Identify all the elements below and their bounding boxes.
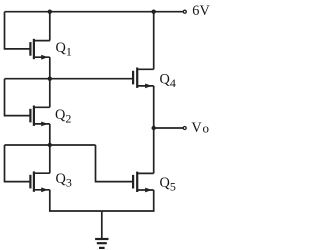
wire Q3 gate loop bbox=[5, 145, 31, 182]
transistor Q1 bbox=[30, 39, 49, 60]
transistor Q4 bbox=[133, 68, 154, 89]
svg-text:Q4: Q4 bbox=[160, 72, 176, 91]
wire Q1 drain from 6V rail bbox=[49, 12, 51, 41]
node junction dot rail2 bbox=[48, 77, 52, 81]
wire Q4 source to Q5 drain (through Vo node) bbox=[153, 86, 155, 173]
transistor Q2 bbox=[30, 106, 49, 127]
wire Q2 drain from rail2 bbox=[49, 79, 51, 108]
terminal Vo open circle bbox=[183, 127, 186, 130]
svg-text:6V: 6V bbox=[192, 3, 210, 19]
transistor Q5 bbox=[133, 172, 154, 193]
svg-text:Q3: Q3 bbox=[56, 171, 72, 190]
svg-text:Vo: Vo bbox=[191, 120, 209, 136]
wire Q3 drain from rail3 bbox=[49, 145, 51, 173]
wire Q2 source to rail3 bbox=[49, 124, 51, 145]
wire Q1 gate loop (left vertical + horizontal to gate) bbox=[5, 12, 31, 49]
svg-text:Q5: Q5 bbox=[160, 175, 176, 194]
wire Q2 gate loop bbox=[5, 79, 31, 116]
transistor Q3 bbox=[30, 171, 49, 192]
wire rail3 (Q2 source / Q3 drain node) bbox=[5, 144, 96, 146]
ground bbox=[95, 239, 108, 248]
terminal 6V open circle bbox=[183, 10, 186, 13]
wire ground stem bbox=[101, 211, 103, 239]
wire rail3 to Q5 gate (corner drop) bbox=[96, 145, 134, 182]
wire rail2 (Q1 source / Q2 drain / Q4 gate node) bbox=[5, 78, 134, 80]
wire Vo tap bbox=[154, 127, 183, 129]
node junction dot rail1 / Q4 drain bbox=[152, 10, 156, 14]
wire Q4 drain from 6V rail bbox=[153, 12, 155, 70]
wire Q5 source to bottom rail bbox=[102, 190, 154, 211]
wire 6V supply rail (top) bbox=[5, 11, 184, 13]
node junction dot rail3 bbox=[48, 143, 52, 147]
svg-text:Q1: Q1 bbox=[56, 40, 72, 59]
wire Q3 source to bottom rail bbox=[50, 190, 102, 211]
wire Q1 source to rail2 bbox=[49, 57, 51, 78]
node junction dot Vo bbox=[152, 126, 156, 130]
node junction dot rail1 / Q1 drain bbox=[48, 10, 52, 14]
svg-text:Q2: Q2 bbox=[55, 107, 71, 126]
